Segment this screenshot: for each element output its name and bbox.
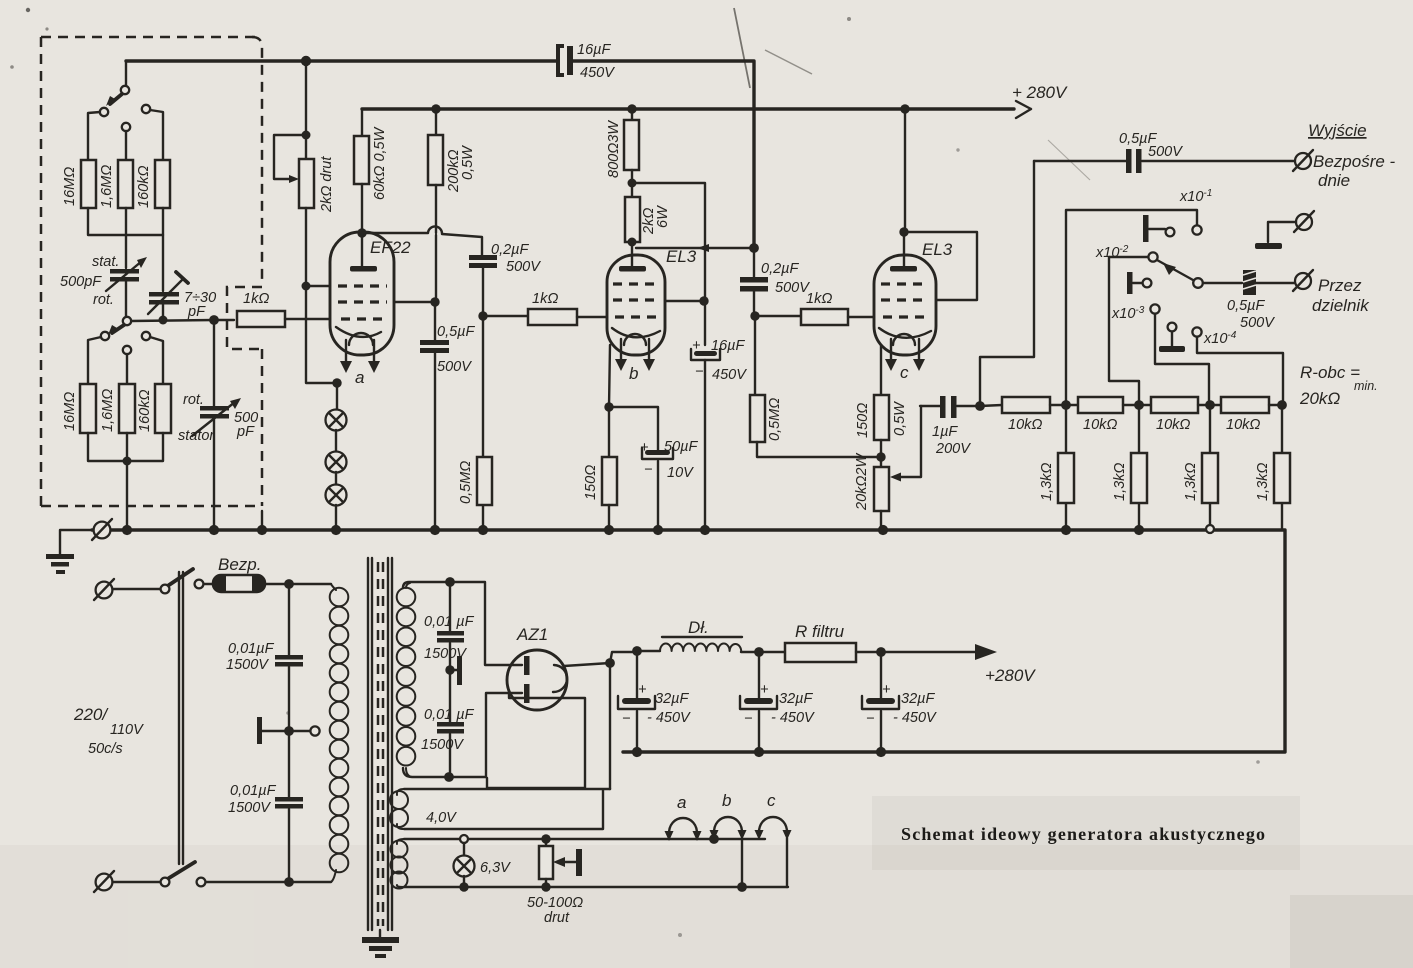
- svg-text:1500V: 1500V: [421, 737, 464, 753]
- svg-text:1,3kΩ: 1,3kΩ: [1112, 463, 1128, 501]
- svg-text:c: c: [767, 791, 776, 810]
- svg-text:a: a: [355, 368, 364, 387]
- svg-text:rot.: rot.: [183, 392, 204, 408]
- svg-text:- 450V: - 450V: [647, 710, 691, 726]
- svg-text:10V: 10V: [667, 465, 694, 481]
- svg-text:min.: min.: [1354, 379, 1378, 393]
- svg-text:Dł.: Dł.: [688, 618, 709, 637]
- svg-text:10kΩ: 10kΩ: [1008, 417, 1042, 433]
- svg-text:1kΩ: 1kΩ: [532, 291, 558, 307]
- svg-text:1500V: 1500V: [228, 800, 271, 816]
- svg-text:110V: 110V: [110, 722, 144, 738]
- svg-text:160kΩ: 160kΩ: [137, 390, 153, 432]
- svg-text:0,2µF: 0,2µF: [491, 242, 530, 258]
- svg-text:200V: 200V: [935, 441, 971, 457]
- svg-text:rot.: rot.: [93, 292, 114, 308]
- svg-text:- 450V: - 450V: [893, 710, 937, 726]
- svg-text:450V: 450V: [580, 65, 615, 81]
- svg-text:450V: 450V: [712, 367, 747, 383]
- svg-text:0,01 µF: 0,01 µF: [424, 707, 475, 723]
- svg-text:0,5W: 0,5W: [892, 401, 908, 436]
- svg-text:150Ω: 150Ω: [855, 403, 871, 438]
- svg-text:+: +: [640, 440, 648, 456]
- svg-text:0,01µF: 0,01µF: [230, 783, 277, 799]
- svg-text:1kΩ: 1kΩ: [806, 291, 832, 307]
- svg-text:−: −: [744, 711, 752, 727]
- svg-text:0,2µF: 0,2µF: [761, 261, 800, 277]
- svg-text:1µF: 1µF: [932, 424, 958, 440]
- svg-text:32µF: 32µF: [655, 691, 689, 707]
- svg-text:6,3V: 6,3V: [480, 860, 511, 876]
- svg-text:16µF: 16µF: [577, 42, 611, 58]
- svg-text:pF: pF: [187, 304, 206, 320]
- svg-text:10kΩ: 10kΩ: [1226, 417, 1260, 433]
- svg-text:1500V: 1500V: [226, 657, 269, 673]
- svg-text:dzielnik: dzielnik: [1312, 296, 1370, 315]
- svg-text:500V: 500V: [506, 259, 541, 275]
- svg-text:b: b: [722, 791, 731, 810]
- svg-text:−: −: [866, 711, 874, 727]
- svg-text:EL3: EL3: [666, 247, 697, 266]
- svg-text:10kΩ: 10kΩ: [1083, 417, 1117, 433]
- svg-text:10kΩ: 10kΩ: [1156, 417, 1190, 433]
- svg-text:Przez: Przez: [1318, 276, 1362, 295]
- svg-text:pF: pF: [236, 424, 255, 440]
- svg-text:Bezp.: Bezp.: [218, 555, 261, 574]
- svg-text:Schemat ideowy generatora akus: Schemat ideowy generatora akustycznego: [901, 824, 1265, 844]
- svg-text:50c/s: 50c/s: [88, 741, 123, 757]
- svg-text:dnie: dnie: [1318, 171, 1350, 190]
- svg-text:stator: stator: [178, 428, 215, 444]
- svg-text:+: +: [638, 682, 646, 698]
- svg-text:500V: 500V: [437, 359, 472, 375]
- svg-text:b: b: [629, 364, 638, 383]
- svg-text:32µF: 32µF: [779, 691, 813, 707]
- svg-text:+ 280V: + 280V: [1012, 83, 1068, 102]
- svg-text:16µF: 16µF: [711, 338, 745, 354]
- svg-text:0,5µF: 0,5µF: [437, 324, 476, 340]
- svg-text:0,5W: 0,5W: [460, 145, 476, 180]
- svg-text:R filtru: R filtru: [795, 622, 845, 641]
- svg-text:500V: 500V: [775, 280, 810, 296]
- svg-text:−: −: [695, 364, 703, 380]
- svg-text:drut: drut: [544, 910, 570, 926]
- svg-text:−: −: [644, 462, 652, 478]
- svg-text:+280V: +280V: [985, 666, 1036, 685]
- svg-text:160kΩ: 160kΩ: [136, 166, 152, 208]
- svg-text:c: c: [900, 363, 909, 382]
- svg-text:0,01µF: 0,01µF: [228, 641, 275, 657]
- svg-text:150Ω: 150Ω: [583, 465, 599, 500]
- svg-text:1,3kΩ: 1,3kΩ: [1255, 463, 1271, 501]
- svg-text:1,6MΩ: 1,6MΩ: [99, 165, 115, 208]
- svg-text:0,5µF: 0,5µF: [1227, 298, 1266, 314]
- svg-text:50µF: 50µF: [664, 439, 698, 455]
- svg-text:60kΩ 0,5W: 60kΩ 0,5W: [372, 126, 388, 200]
- svg-text:20kΩ: 20kΩ: [1299, 389, 1340, 408]
- svg-text:R-obc =: R-obc =: [1300, 363, 1360, 382]
- svg-text:Bezpośre -: Bezpośre -: [1313, 152, 1396, 171]
- svg-text:16MΩ: 16MΩ: [62, 167, 78, 206]
- svg-text:1kΩ: 1kΩ: [243, 291, 269, 307]
- svg-text:50-100Ω: 50-100Ω: [527, 895, 583, 911]
- svg-text:EF22: EF22: [370, 238, 411, 257]
- svg-text:1,3kΩ: 1,3kΩ: [1039, 463, 1055, 501]
- svg-text:2kΩ drut: 2kΩ drut: [319, 156, 335, 213]
- svg-text:32µF: 32µF: [901, 691, 935, 707]
- svg-text:EL3: EL3: [922, 240, 953, 259]
- svg-text:20kΩ2W: 20kΩ2W: [854, 453, 870, 511]
- svg-text:−: −: [622, 711, 630, 727]
- svg-text:0,01 µF: 0,01 µF: [424, 614, 475, 630]
- svg-text:500V: 500V: [1240, 315, 1275, 331]
- svg-text:+: +: [692, 338, 700, 354]
- svg-text:500pF: 500pF: [60, 274, 102, 290]
- svg-text:220/: 220/: [73, 705, 109, 724]
- svg-text:16MΩ: 16MΩ: [62, 392, 78, 431]
- svg-text:1,6MΩ: 1,6MΩ: [100, 389, 116, 432]
- svg-text:a: a: [677, 793, 686, 812]
- svg-text:800Ω3W: 800Ω3W: [606, 120, 622, 178]
- svg-text:+: +: [760, 682, 768, 698]
- svg-text:500V: 500V: [1148, 144, 1183, 160]
- svg-text:4,0V: 4,0V: [426, 810, 457, 826]
- svg-text:6W: 6W: [655, 205, 671, 228]
- svg-text:0,5MΩ: 0,5MΩ: [458, 461, 474, 504]
- svg-text:Wyjście: Wyjście: [1308, 121, 1367, 140]
- svg-text:1,3kΩ: 1,3kΩ: [1183, 463, 1199, 501]
- svg-text:AZ1: AZ1: [516, 625, 548, 644]
- svg-text:stat.: stat.: [92, 254, 119, 270]
- svg-text:+: +: [882, 682, 890, 698]
- svg-text:- 450V: - 450V: [771, 710, 815, 726]
- svg-text:0,5MΩ: 0,5MΩ: [767, 398, 783, 441]
